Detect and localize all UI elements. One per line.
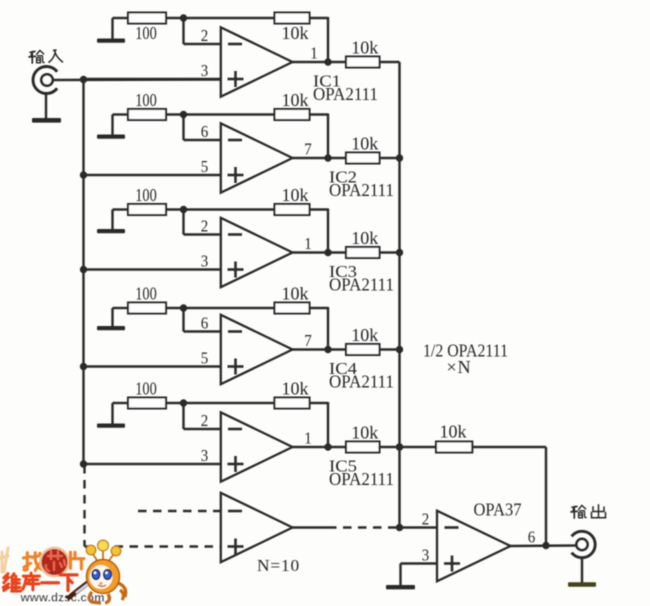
svg-text:10k: 10k — [351, 228, 378, 248]
wire bus to non-inverting input — [84, 268, 221, 270]
value label 10k (R4b) — [282, 284, 309, 304]
value label 10k (R4c) — [351, 325, 378, 345]
value label 10k (R2c) — [351, 134, 378, 154]
wire R2c to summing bus — [380, 157, 400, 159]
wire OPA37 output — [511, 544, 577, 547]
svg-text:7: 7 — [304, 331, 312, 350]
wire R5a to node — [166, 402, 184, 404]
pin label 3 (OPA37 non-inverting) — [422, 546, 430, 565]
designator IC5 — [329, 457, 357, 476]
pin label 1 (IC1 output) — [310, 44, 318, 63]
wire node to feedback R1b — [184, 17, 275, 19]
wire input ground stub — [45, 93, 47, 120]
pin label 5 (IC2 non-inverting) — [201, 157, 209, 176]
wire op-amp N output dashed — [328, 526, 400, 528]
pin label 3 (IC1 non-inverting) — [201, 61, 209, 80]
wire output ground stub — [581, 557, 583, 583]
wire R3a to node — [166, 208, 184, 210]
value label 10k (R2b) — [282, 90, 309, 110]
svg-text:3: 3 — [201, 446, 209, 465]
designator OPA2111 (IC2) — [329, 180, 394, 200]
resistor R3c 10k series — [346, 247, 380, 258]
svg-text:OPA2111: OPA2111 — [329, 469, 394, 489]
output connector J2 (输出 output) — [572, 531, 596, 557]
svg-text:5: 5 — [201, 349, 209, 368]
wire R4b to output node — [310, 307, 329, 350]
wire node to inverting input — [184, 308, 221, 332]
junction summing bus IC2 — [396, 154, 403, 161]
pin label 7 (IC4 output) — [304, 331, 312, 350]
wire R4c to summing bus — [380, 348, 400, 350]
watermark mascot — [67, 540, 126, 603]
pin label 2 (OPA37 inverting) — [422, 510, 430, 529]
svg-text:6: 6 — [201, 314, 209, 333]
svg-text:6: 6 — [201, 122, 209, 141]
resistor Rf 10k (OPA37 feedback) — [436, 442, 472, 453]
junction IC4 output/feedback — [324, 346, 331, 353]
op-amp IC2 OPA2111 triangle — [221, 123, 293, 192]
pin label 1 (IC3 output) — [304, 234, 312, 253]
pin label 2 (IC1 inverting) — [201, 26, 209, 45]
pin label 2 (IC5 inverting) — [201, 411, 209, 430]
wire node to feedback R2b — [184, 113, 275, 115]
resistor R1a 100 — [128, 13, 166, 24]
ground (output connector) — [568, 582, 596, 586]
designator IC3 — [329, 262, 357, 281]
svg-text:OPA2111: OPA2111 — [329, 372, 394, 392]
pin label 3 (IC3 non-inverting) — [201, 252, 209, 271]
svg-text:×N: ×N — [447, 357, 472, 377]
value label 100 (IC5) — [135, 379, 157, 399]
junction bus IC3 non-inverting — [80, 266, 87, 273]
resistor R2a 100 — [128, 109, 166, 120]
value label 10k (R5b) — [282, 379, 309, 399]
junction IC5 output/feedback — [324, 443, 331, 450]
svg-text:100: 100 — [135, 23, 157, 43]
wire ground to R4a — [113, 307, 129, 309]
svg-text:10k: 10k — [282, 185, 309, 205]
resistor R5b 10k feedback — [275, 398, 310, 409]
svg-text:100: 100 — [135, 379, 157, 399]
wire dashed Nth op-amp inverting stub — [138, 510, 221, 512]
junction bus IC2 non-inverting — [80, 171, 87, 178]
junction IC2 output/feedback — [324, 154, 331, 161]
wire R1b to output node — [310, 17, 329, 62]
label 输出 (output) — [571, 505, 605, 518]
wire R5b to output node — [310, 402, 329, 447]
svg-text:2: 2 — [201, 26, 209, 45]
value label 10k (R3c) — [351, 228, 378, 248]
input connector J1 (输入 input) — [33, 67, 57, 94]
svg-text:1: 1 — [310, 44, 318, 63]
value label 100 (IC4) — [135, 284, 157, 304]
resistor R4b 10k feedback — [275, 303, 310, 314]
svg-text:5: 5 — [201, 157, 209, 176]
wire input to IC1 pin3 — [54, 78, 221, 81]
pin label 7 (IC2 output) — [304, 140, 312, 159]
watermark text 维库一下 — [3, 573, 77, 591]
svg-text:10k: 10k — [440, 422, 467, 442]
svg-text:OPA37: OPA37 — [474, 500, 522, 520]
designator OPA37 — [474, 500, 522, 520]
resistor R4c 10k series — [346, 344, 380, 355]
wire R2b to output node — [310, 114, 329, 159]
svg-text:10k: 10k — [351, 38, 378, 58]
junction input bus — [80, 76, 87, 83]
svg-text:10k: 10k — [351, 134, 378, 154]
svg-text:2: 2 — [422, 510, 430, 529]
pin label 2 (IC3 inverting) — [201, 217, 209, 236]
op-amp IC1 OPA2111 triangle — [221, 27, 293, 96]
wire node to feedback R5b — [184, 402, 275, 404]
wire bus to non-inverting input — [84, 174, 221, 176]
wire left input bus — [82, 80, 84, 466]
wire node to inverting input — [184, 403, 221, 429]
junction summing bus IC5 — [396, 443, 403, 450]
svg-text:OPA2111: OPA2111 — [313, 84, 378, 104]
pin label 6 (IC2 inverting) — [201, 122, 209, 141]
junction IC1 output/feedback — [324, 58, 331, 65]
pin label 5 (IC4 non-inverting) — [201, 349, 209, 368]
wire R1c to summing bus — [380, 61, 400, 63]
wire op-amp N output — [293, 526, 329, 528]
resistor R3b 10k feedback — [275, 204, 310, 215]
op-amp U6 OPA37 triangle — [437, 511, 511, 582]
wire OPA37 pin3 to ground — [401, 564, 438, 586]
wire R5c to summing bus — [380, 446, 400, 448]
svg-text:10k: 10k — [282, 284, 309, 304]
wire bus to non-inverting input — [84, 463, 221, 465]
svg-text:1: 1 — [304, 429, 312, 448]
ground (input connector) — [32, 118, 61, 123]
junction node IC2 inverting — [180, 111, 187, 118]
junction summing bus IC4 — [396, 346, 403, 353]
svg-text:OPA2111: OPA2111 — [329, 275, 394, 295]
svg-text:1: 1 — [304, 234, 312, 253]
resistor R5c 10k series — [346, 442, 380, 453]
pin label 1 (IC5 output) — [304, 429, 312, 448]
ground (OPA37 pin3) — [386, 585, 415, 589]
svg-text:3: 3 — [201, 61, 209, 80]
designator OPA2111 (IC4) — [329, 372, 394, 392]
value label 100 (IC3) — [135, 185, 157, 205]
wire R2a to node — [166, 113, 184, 115]
wire IC4 output — [293, 348, 347, 350]
ground (IC2 100Ω resistor) — [97, 115, 125, 139]
wire summing bus — [398, 62, 400, 528]
op-amp IC3 OPA2111 triangle — [221, 218, 293, 287]
watermark glyph 找 — [23, 553, 42, 571]
junction node IC5 inverting — [180, 399, 187, 406]
junction OPA37 output/feedback — [542, 542, 549, 549]
junction node IC3 inverting — [180, 206, 187, 213]
watermark glyph 片 — [70, 552, 83, 569]
designator OPA2111 (IC3) — [329, 275, 394, 295]
value label 10k (R1c) — [351, 38, 378, 58]
wire ground to R5a — [113, 402, 129, 404]
ground (IC4 100Ω resistor) — [97, 308, 125, 330]
value label 100 (IC2) — [135, 90, 157, 110]
wire R3b to output node — [310, 209, 329, 253]
svg-text:100: 100 — [135, 185, 157, 205]
resistor R2c 10k series — [346, 153, 380, 164]
wire R4a to node — [166, 307, 184, 309]
wire ground to R2a — [113, 113, 129, 115]
svg-text:7: 7 — [304, 140, 312, 159]
watermark partial glyph left edge — [0, 548, 8, 572]
wire ground to R3a — [113, 208, 129, 210]
junction bus IC4 non-inverting — [80, 363, 87, 370]
designator IC2 — [329, 168, 357, 187]
junction summing bus IC3 — [396, 249, 403, 256]
ground (IC1 100Ω resistor) — [97, 18, 125, 43]
svg-text:N=10: N=10 — [257, 556, 300, 575]
wire IC1 output — [293, 61, 347, 63]
junction node IC1 inverting — [180, 14, 187, 21]
op-amp IC4 OPA2111 triangle — [221, 315, 293, 384]
junction node IC4 inverting — [180, 304, 187, 311]
svg-text:10k: 10k — [351, 423, 378, 443]
label N=10 — [257, 556, 300, 575]
pin label 3 (IC5 non-inverting) — [201, 446, 209, 465]
pin label 6 (IC4 inverting) — [201, 314, 209, 333]
junction summing bus feedback — [396, 443, 403, 450]
wire summing bus to Rf — [400, 446, 437, 448]
svg-text:10k: 10k — [282, 379, 309, 399]
wire R1a to node — [166, 17, 184, 19]
value label 100 (IC1) — [135, 23, 157, 43]
op-amp IC5 OPA2111 triangle — [221, 412, 293, 481]
designator IC4 — [329, 359, 358, 378]
value label 10k (R1b) — [282, 23, 309, 43]
pin label 6 (OPA37 output) — [528, 528, 536, 547]
value label 10k (Rf) — [440, 422, 467, 442]
wire IC5 output — [293, 446, 347, 448]
wire node to feedback R3b — [184, 208, 275, 210]
wire node to inverting input — [184, 210, 221, 235]
wire IC3 output — [293, 251, 347, 253]
designator IC1 — [313, 72, 341, 91]
label ×N — [447, 357, 472, 377]
resistor R2b 10k feedback — [275, 109, 310, 120]
wire node to feedback R4b — [184, 307, 275, 309]
resistor R1c 10k series — [346, 57, 380, 68]
svg-text:10k: 10k — [282, 90, 309, 110]
designator OPA2111 (IC5) — [329, 469, 394, 489]
junction bus IC5 non-inverting — [80, 460, 87, 467]
ground (IC3 100Ω resistor) — [97, 210, 125, 234]
wire node to inverting input — [184, 115, 221, 141]
junction summing bus to OPA37 — [396, 524, 403, 531]
svg-text:OPA2111: OPA2111 — [329, 180, 394, 200]
watermark magnifier 芯 — [40, 548, 68, 576]
svg-text:3: 3 — [422, 546, 430, 565]
label 输入 (input) — [29, 50, 62, 63]
svg-text:100: 100 — [135, 90, 157, 110]
label 1/2 OPA2111 — [423, 341, 508, 361]
svg-text:3: 3 — [201, 252, 209, 271]
resistor R3a 100 — [128, 204, 166, 215]
wire bus to non-inverting input — [84, 78, 221, 80]
op-amp N (Nth OPA2111) triangle — [221, 493, 293, 562]
value label 10k (R5c) — [351, 423, 378, 443]
wire R3c to summing bus — [380, 251, 400, 253]
svg-text:100: 100 — [135, 284, 157, 304]
wire bus to non-inverting input — [84, 365, 221, 367]
wire ground to R1a — [113, 17, 129, 19]
svg-text:10k: 10k — [282, 23, 309, 43]
ground (IC5 100Ω resistor) — [97, 403, 125, 428]
resistor R4a 100 — [128, 303, 166, 314]
wire IC2 output — [293, 157, 347, 159]
watermark text www.dzsc.com — [20, 591, 105, 605]
value label 10k (R3b) — [282, 185, 309, 205]
svg-text:2: 2 — [201, 217, 209, 236]
designator OPA2111 (IC1) — [313, 84, 378, 104]
wire summing bus to OPA37 pin2 — [400, 526, 438, 528]
wire input bus dashed continuation — [83, 465, 85, 547]
svg-text:10k: 10k — [351, 325, 378, 345]
junction IC3 output/feedback — [324, 249, 331, 256]
wire Rf to output node — [472, 447, 546, 546]
wire node to inverting input — [184, 18, 221, 44]
svg-text:6: 6 — [528, 528, 536, 547]
wire dashed to Nth op-amp non-inverting — [85, 545, 221, 547]
svg-text:2: 2 — [201, 411, 209, 430]
resistor R5a 100 — [128, 398, 166, 409]
resistor R1b 10k feedback — [275, 13, 310, 24]
